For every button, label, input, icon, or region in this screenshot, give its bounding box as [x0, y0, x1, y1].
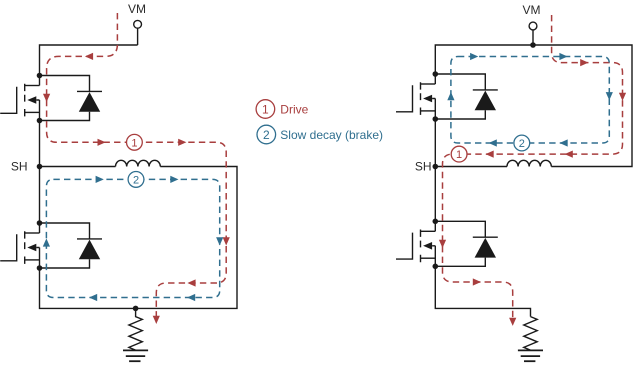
wire: top rail left circuit — [40, 45, 138, 86]
wire: SH to inductor (right) — [435, 166, 507, 168]
svg-text:2: 2 — [519, 138, 525, 150]
svg-text:1: 1 — [456, 149, 462, 161]
svg-text:1: 1 — [262, 102, 269, 116]
svg-text:1: 1 — [131, 137, 137, 149]
VM terminal (right) — [529, 22, 537, 45]
resistor R2 sense resistor (right) — [524, 317, 537, 351]
svg-text:SH: SH — [415, 160, 432, 174]
node SH (right) label — [415, 160, 432, 174]
svg-text:2: 2 — [263, 128, 270, 142]
transistor Q2 low-side MOSFET with body diode (left) — [0, 220, 102, 271]
wire: SH down to Q4 drain (right) — [434, 167, 436, 232]
ground (right) — [518, 350, 543, 361]
current path 1 drive (left circuit, red dashed) — [47, 13, 227, 316]
current path 1 drive (right circuit, red dashed) — [443, 15, 623, 318]
svg-text:Drive: Drive — [280, 102, 308, 116]
transistor Q1 high-side MOSFET with body diode (left) — [0, 73, 102, 124]
node SH (left) label — [11, 160, 28, 174]
current path 2 slow decay loop (left circuit, blue dashed) — [46, 179, 219, 297]
wire: top rail right circuit — [435, 45, 632, 167]
current path 2 slow decay loop (right circuit, blue dashed) — [451, 57, 609, 144]
node SH (right) junction dot — [433, 164, 439, 170]
legend item 2 Slow decay (brake) — [257, 125, 383, 144]
wire: Q4 source to sense resistor (right) — [435, 266, 530, 316]
svg-text:Slow decay (brake): Slow decay (brake) — [280, 128, 383, 142]
node label 1 on left drive path — [126, 134, 142, 150]
node SH (left) junction dot — [37, 164, 43, 170]
arrows path 2 left circuit — [43, 176, 224, 301]
wire: left rail Q1 source to SH node — [39, 121, 41, 167]
svg-text:VM: VM — [128, 2, 146, 16]
node: VM junction dot (right) — [530, 42, 536, 48]
arrows path 1 left circuit — [43, 53, 230, 324]
node VM (right) label — [523, 3, 541, 17]
transistor Q4 low-side MOSFET with body diode (right) — [396, 219, 498, 270]
node VM (left) label — [128, 2, 146, 16]
resistor R1 sense resistor (left) — [129, 308, 142, 350]
wire: Q3 source to SH node (right) — [434, 119, 436, 167]
node label 2 on right slow-decay path — [514, 135, 530, 151]
svg-text:2: 2 — [133, 174, 139, 186]
transistor Q3 high-side MOSFET with body diode (right) — [396, 71, 498, 122]
node: sense resistor junction dot (left) — [133, 306, 139, 312]
VM terminal (left) — [134, 20, 142, 45]
ground (left) — [123, 350, 148, 361]
arrows path 1 right circuit — [439, 59, 626, 326]
wire: SH down to Q2 drain (left) — [39, 167, 41, 234]
node label 1 on right drive path — [451, 146, 467, 162]
inductor L1 winding (left) — [116, 160, 161, 166]
arrows path 2 right circuit — [447, 53, 613, 147]
legend item 1 Drive — [256, 100, 309, 119]
node label 2 on left slow-decay path — [128, 172, 144, 188]
wire: SH to inductor (left) — [40, 166, 116, 168]
svg-text:SH: SH — [11, 160, 28, 174]
inductor L2 winding (right) — [507, 160, 551, 166]
svg-text:VM: VM — [523, 3, 541, 17]
wire: inductor to right leg (left circuit) — [40, 167, 238, 309]
